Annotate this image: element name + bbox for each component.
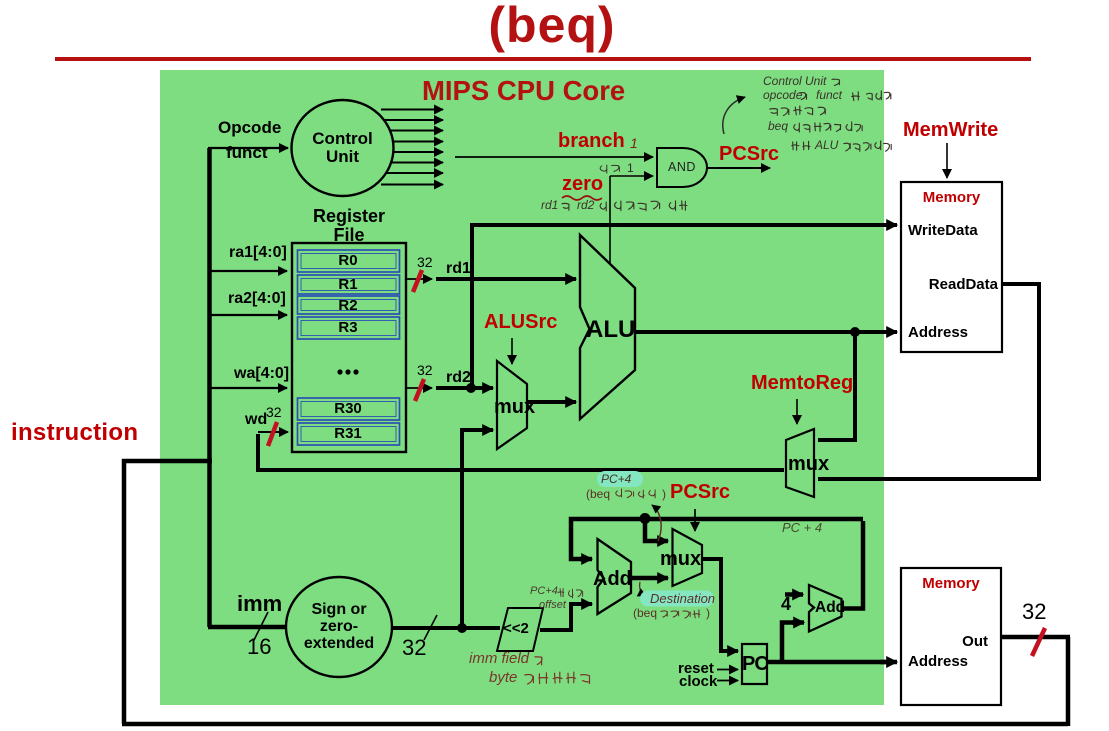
hook under Add1 out: [640, 582, 646, 596]
label wa: [234, 366, 289, 383]
curved annotation arrow near PCSrc: [723, 97, 745, 134]
label 4: [781, 595, 791, 614]
memory2 box: [901, 568, 1001, 705]
red rule: [55, 57, 1031, 61]
MemtoReg select arrow: [796, 399, 798, 424]
label PCSrc top: [719, 144, 779, 165]
curved hook to junction dot: [652, 505, 661, 541]
wire: AND output PCSrc: [707, 167, 770, 169]
wire: zero vertical: [609, 176, 611, 264]
label 32 out: [1022, 600, 1046, 623]
wire: rd2 bus to mux: [436, 386, 493, 390]
label zero: [562, 174, 603, 195]
hw rd1 rd2: [541, 199, 558, 212]
MemtoReg mux: [786, 429, 814, 497]
label ra2: [228, 291, 286, 308]
hw PC + 4: [782, 521, 822, 535]
wire: rd1 thin out: [407, 278, 432, 280]
handwriting scribbles: [832, 79, 840, 85]
label rd2: [446, 370, 471, 387]
wire: signext out 32: [392, 626, 500, 630]
label reset: [678, 661, 714, 677]
wire: imm to sign extender: [208, 625, 289, 630]
label shift: [503, 621, 529, 637]
register R2: [298, 296, 400, 314]
wire: outer loop right vertical: [1066, 637, 1071, 726]
wire: instruction bus vertical: [207, 148, 212, 627]
wire: ra2 arrow: [208, 314, 287, 316]
label MemWrite: [903, 120, 998, 141]
label 32 rd2: [417, 363, 433, 378]
labels R0-R3: [297, 253, 399, 269]
PCSrc select arrow: [694, 509, 696, 531]
handwritten 1 after branch: [630, 136, 638, 151]
wire: wa arrow: [208, 387, 287, 389]
ALU: [580, 235, 635, 419]
slash rd1 32: [413, 270, 422, 292]
junction dot PC+4: [640, 513, 651, 524]
wire: rd1 bus to ALU: [436, 277, 576, 281]
label wd: [245, 412, 267, 429]
label AND: [668, 161, 696, 174]
arrowhead WriteData: [880, 223, 897, 227]
wire: Add1 out to mux: [631, 576, 668, 581]
reset arrow: [717, 669, 738, 671]
ALUSrc select arrow: [511, 338, 513, 364]
junction dot signext: [457, 623, 467, 633]
label MemtoReg: [751, 373, 853, 394]
label rd1: [446, 261, 471, 278]
hw annotation latin parts: [763, 75, 826, 88]
label 16: [247, 635, 271, 658]
hw PC+4 highlighted: [601, 473, 631, 486]
slash out 32: [1032, 628, 1045, 656]
green background panel: [160, 70, 884, 706]
memory1 box: [901, 182, 1002, 352]
hw Destination: [650, 592, 715, 606]
label PCSrc bottom: [670, 482, 730, 503]
wire: rd2 thin out: [407, 387, 432, 389]
wire: opcode/funct into control unit: [208, 147, 288, 149]
label Address1: [908, 325, 968, 341]
ALUSrc mux: [497, 361, 527, 449]
label funct: [226, 144, 268, 162]
label PC: [742, 654, 767, 675]
label mux2: [660, 549, 701, 570]
wire: mux2 out to PC: [701, 559, 736, 651]
control unit fan-out arrows: [381, 109, 443, 111]
highlight pill Destination: [640, 591, 714, 607]
wire: shifter out to Add1: [540, 604, 588, 630]
PCSrc mux2: [673, 529, 703, 586]
wire: wd arrow: [258, 431, 288, 433]
label ra1: [229, 245, 287, 262]
hw 1 after gateun: [627, 162, 634, 175]
label 32 rd1: [417, 255, 433, 270]
junction dot rd2: [466, 383, 476, 393]
wire: mux out to ALU: [527, 400, 576, 404]
highlight pill PC+4: [597, 471, 643, 487]
control unit circle: [292, 100, 394, 196]
hw imm field: [469, 651, 529, 667]
label instruction: [11, 420, 138, 445]
hw beq false paren: [586, 488, 610, 501]
slash signext 32: [424, 615, 437, 640]
label 32 signext: [402, 636, 426, 659]
label ALU: [586, 317, 635, 342]
label Out: [901, 634, 988, 650]
label Memory2: [901, 576, 1001, 592]
arrowhead mux in2: [480, 428, 493, 432]
clock arrow: [717, 680, 738, 682]
label Control Unit: [292, 130, 393, 166]
wire: memory2 out: [1001, 635, 1070, 640]
MemWrite arrow: [946, 143, 948, 178]
label 32 wd: [266, 405, 282, 420]
wire: Add2 out up to PC+4: [841, 521, 863, 609]
label Add2: [815, 600, 845, 616]
slash imm 16: [254, 612, 268, 640]
junction dot ALU result: [850, 327, 860, 337]
heading MIPS CPU Core: [422, 77, 625, 106]
wire: ra1 arrow: [208, 270, 287, 272]
title (beq): [482, 0, 622, 52]
hw pc+4 offset: [530, 586, 558, 598]
wire: ReadData loop: [818, 284, 1039, 479]
label imm: [237, 592, 282, 615]
wire: const 4 into Add2: [785, 592, 803, 597]
label mux1: [494, 397, 535, 418]
slash rd2 32: [415, 379, 424, 401]
register file box: [292, 243, 406, 452]
wire: PC out to memory2 Address: [767, 660, 893, 665]
wire: PC+4 into PCSrc mux: [645, 519, 660, 541]
register R3: [298, 317, 400, 339]
zero wavy underline: [562, 196, 602, 200]
label Memory1: [901, 190, 1002, 206]
label branch: [558, 131, 625, 152]
wire: rd2 up to memory WriteData: [472, 225, 893, 386]
register dots: [337, 369, 342, 374]
wire: writeback long: [258, 434, 784, 470]
AND gate: [657, 148, 707, 187]
shifter box <<2: [497, 608, 543, 651]
label clock: [679, 674, 717, 690]
wire: ALU result to memory Address: [635, 330, 893, 334]
Add2 adder: [809, 585, 842, 632]
Add1 adder: [598, 539, 632, 614]
slash wd 32: [268, 422, 277, 446]
label ALUSrc: [484, 312, 557, 333]
register R30: [298, 398, 400, 420]
wire: PC+4 main: [571, 519, 863, 559]
wire: zero to AND gate: [610, 175, 653, 177]
register R31: [298, 423, 400, 445]
label mux3: [788, 454, 829, 475]
wire: instruction feed from outer loop: [124, 461, 212, 724]
wire: PC out up to Add2: [782, 623, 796, 663]
label Sign or zero-extended: [286, 602, 392, 652]
label Register File: [292, 207, 406, 245]
register R0: [298, 250, 400, 272]
wire: outer loop bottom: [122, 722, 1068, 727]
wire: branch to AND gate: [455, 156, 653, 158]
label ReadData: [901, 277, 998, 293]
label WriteData: [908, 223, 978, 239]
underline of hw 1: [626, 175, 637, 176]
label Address2: [908, 654, 968, 670]
PC box: [742, 644, 767, 684]
label Add1: [593, 569, 632, 590]
wire: ALU result down to MemtoReg mux: [818, 332, 855, 440]
register R1: [298, 275, 400, 294]
label Opcode: [218, 119, 281, 137]
sign extender circle: [286, 577, 392, 677]
wire: signext vertical to ALUSrc mux: [462, 430, 491, 629]
